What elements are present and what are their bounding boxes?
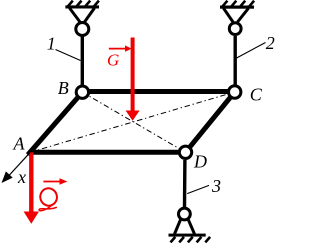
support S2 pin circle: [229, 23, 241, 35]
node D pin: [179, 146, 191, 158]
member D-C: [186, 92, 235, 152]
svg-text:A: A: [13, 133, 26, 153]
svg-text:1: 1: [47, 33, 56, 53]
rod 1: [81, 37, 84, 87]
member A-D: [30, 150, 186, 155]
support S2 hatching: [223, 1, 255, 7]
svg-text:C: C: [250, 84, 263, 104]
force G vector bar arrow: [109, 48, 126, 50]
support S2 bracket: [224, 8, 249, 22]
svg-text:D: D: [193, 151, 207, 171]
label 3 leader: [187, 185, 209, 193]
member B-C: [82, 89, 234, 94]
force Q shaft: [29, 153, 33, 214]
label 1 leader: [56, 50, 81, 61]
force G arrowhead: [126, 111, 140, 121]
diagonal B-D (dash-dot): [82, 92, 185, 152]
rod 2: [233, 36, 236, 86]
force Q arrowhead: [24, 212, 39, 224]
support S2 ceiling bar: [220, 6, 254, 9]
x axis line: [9, 153, 30, 176]
x axis arrowhead: [2, 171, 13, 183]
support S1 pin circle: [76, 23, 89, 36]
force Q vector bar arrow: [43, 181, 60, 183]
support S3 pin circle: [179, 208, 191, 220]
force Q label: [38, 187, 58, 211]
support S3 hatching: [171, 237, 211, 243]
svg-text:x: x: [17, 167, 26, 187]
support S1 bracket: [70, 8, 95, 22]
rod 3: [183, 160, 187, 208]
support S1 ceiling bar: [65, 5, 99, 8]
node C pin: [229, 86, 241, 98]
force G shaft: [131, 38, 135, 113]
support S1 hatching: [68, 1, 99, 7]
svg-text:B: B: [58, 78, 69, 98]
support S3 bracket: [175, 219, 195, 234]
support S3 ground bar: [169, 234, 206, 237]
label 2 leader: [237, 43, 266, 59]
node B pin: [76, 86, 88, 98]
member A-B: [28, 92, 83, 155]
svg-text:2: 2: [266, 33, 275, 53]
svg-text:G: G: [107, 51, 119, 70]
diagonal A-C (dash-dot): [30, 92, 235, 152]
svg-text:3: 3: [211, 176, 221, 196]
